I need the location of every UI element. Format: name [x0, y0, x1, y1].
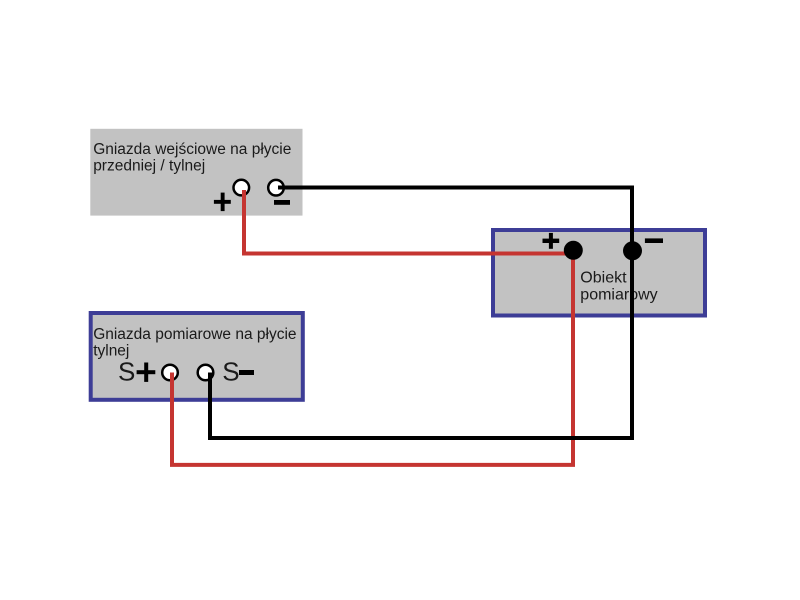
- svg-text:S: S: [118, 357, 135, 387]
- panel box: sense sockets (gray with dark blue border): [91, 313, 303, 400]
- plus sign (DUT + marking): [543, 233, 560, 249]
- plus sign (input + marking): [214, 193, 231, 212]
- svg-text:Gniazda wejściowe na płycie: Gniazda wejściowe na płycie: [93, 141, 291, 158]
- terminal dot: DUT + (filled): [564, 241, 583, 260]
- label: Obiekt pomiarowy: [580, 269, 657, 303]
- socket circle: sense S+ terminal: [162, 365, 178, 381]
- label: Gniazda wejsciowe na plycie przedniej / tylnej: [93, 141, 291, 175]
- box: device under test (Obiekt pomiarowy): [493, 230, 705, 316]
- minus sign (input - marking): [274, 200, 290, 205]
- socket circle: sense S- terminal: [198, 365, 214, 381]
- svg-text:pomiarowy: pomiarowy: [580, 286, 657, 303]
- svg-text:S: S: [222, 357, 239, 387]
- svg-text:Obiekt: Obiekt: [580, 269, 627, 286]
- label: Gniazda pomiarowe na plycie tylnej: [93, 326, 296, 360]
- minus sign (DUT - marking): [645, 238, 663, 243]
- panel box: input sockets (gray, no border): [90, 129, 302, 216]
- svg-text:przedniej / tylnej: przedniej / tylnej: [93, 158, 205, 175]
- svg-text:Gniazda pomiarowe na płycie: Gniazda pomiarowe na płycie: [93, 326, 296, 343]
- socket circle: input + terminal: [234, 180, 250, 196]
- plus sign (S+ marking): [137, 363, 156, 382]
- wire: red positive lead (input + to DUT + to sense S+): [172, 190, 573, 465]
- terminal dot: DUT - (filled): [623, 241, 642, 260]
- wire: black negative lead (input - to DUT - to sense S-): [210, 188, 632, 439]
- minus sign (S- marking): [239, 370, 254, 375]
- socket circle: input - terminal: [268, 180, 284, 196]
